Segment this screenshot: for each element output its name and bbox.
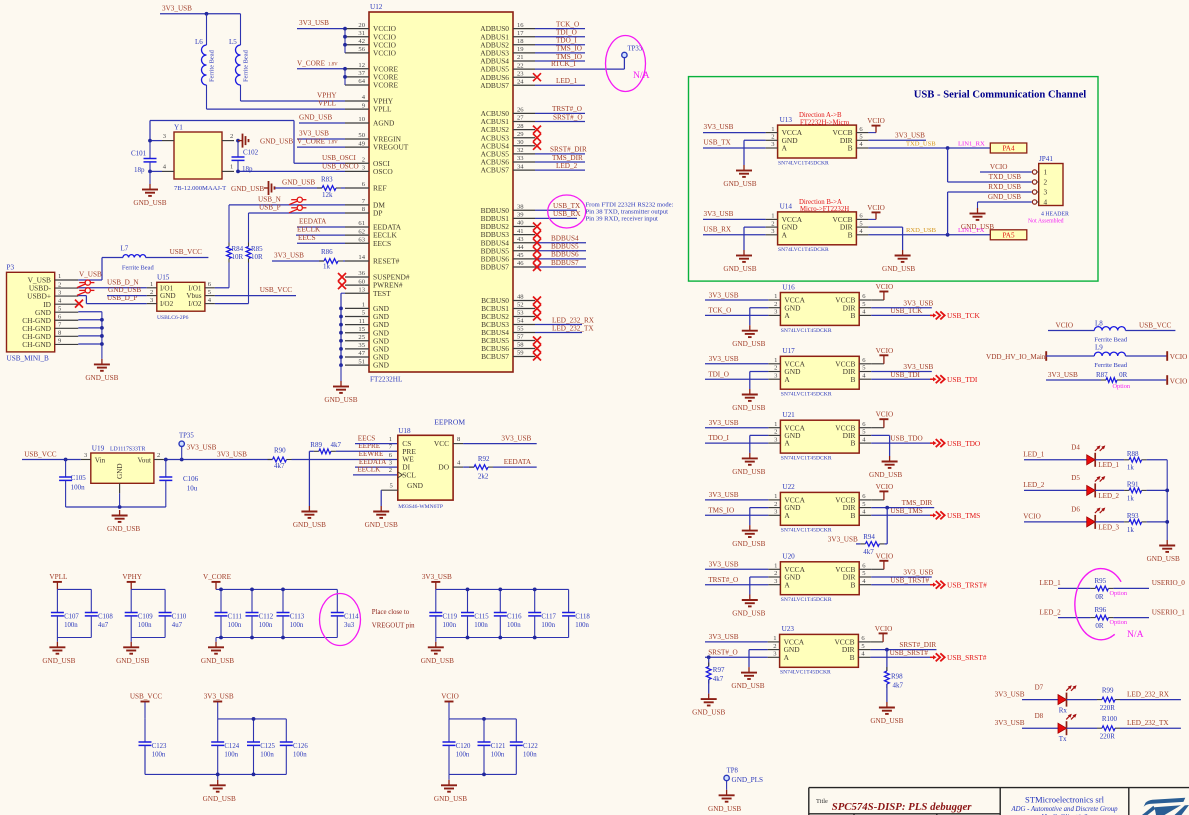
capacitor C105 100n xyxy=(59,460,86,508)
wire U13 GND pin2 xyxy=(744,140,766,165)
svg-text:USB_TX: USB_TX xyxy=(553,202,581,210)
svg-text:1.8V: 1.8V xyxy=(328,62,338,67)
svg-text:M93S46-WMN6TP: M93S46-WMN6TP xyxy=(398,504,443,510)
svg-text:ACBUS7: ACBUS7 xyxy=(481,166,510,175)
ground under U23 xyxy=(731,667,764,690)
svg-text:V_CORE: V_CORE xyxy=(297,59,326,67)
svg-text:GND_USB: GND_USB xyxy=(421,657,454,665)
svg-text:GND_USB: GND_USB xyxy=(882,265,915,273)
svg-text:LED_232_TX: LED_232_TX xyxy=(1127,719,1169,727)
svg-text:V_CORE: V_CORE xyxy=(297,138,326,146)
svg-text:Y1: Y1 xyxy=(174,123,183,131)
wire 3V3_USB to U13 pin1 xyxy=(703,123,766,132)
svg-text:TCK_O: TCK_O xyxy=(708,307,731,315)
svg-text:3V3_USB: 3V3_USB xyxy=(299,19,329,27)
capacitor bank VPHY C109 C110 xyxy=(116,573,187,665)
svg-text:D6: D6 xyxy=(1071,506,1080,514)
svg-text:R94: R94 xyxy=(863,533,875,541)
power VCIO at U16 xyxy=(871,283,893,300)
wire LED_232_TX from BCBUS4 xyxy=(535,324,594,332)
ground at U21 DIR xyxy=(869,456,902,479)
wire 3V3_USB to U21 pin1 xyxy=(705,419,768,428)
svg-text:A: A xyxy=(782,144,788,153)
label RXD_USB JP41 pin3 xyxy=(988,183,1021,191)
svg-text:EECS: EECS xyxy=(373,239,391,248)
svg-text:GND_USB: GND_USB xyxy=(692,709,725,717)
net tie on USBD- line xyxy=(77,278,147,287)
company text STMicroelectronics xyxy=(1010,794,1118,815)
svg-text:3u3: 3u3 xyxy=(344,622,355,629)
svg-text:USB_VCC: USB_VCC xyxy=(1139,322,1172,330)
svg-text:From FTDI 2232H RS232 mode:: From FTDI 2232H RS232 mode: xyxy=(586,201,674,208)
wire 3V3_USB from U13 DIR xyxy=(868,131,926,140)
svg-text:VCIO: VCIO xyxy=(990,163,1008,171)
wire U17 GND pin2 xyxy=(750,372,769,390)
svg-text:D8: D8 xyxy=(1035,712,1044,720)
svg-text:1: 1 xyxy=(774,293,777,300)
svg-text:SN74LVC1T45DCKR: SN74LVC1T45DCKR xyxy=(780,670,831,676)
svg-text:VCIO: VCIO xyxy=(875,625,893,633)
svg-text:100n: 100n xyxy=(523,752,537,759)
wire USB_P vertical to U15 xyxy=(248,213,250,304)
svg-text:C112: C112 xyxy=(259,614,274,621)
wire TMS_IO from ADBUS4 xyxy=(535,53,585,61)
svg-text:BDBUS7: BDBUS7 xyxy=(481,263,510,272)
svg-text:I/O2: I/O2 xyxy=(188,300,202,308)
svg-text:EEDATA: EEDATA xyxy=(299,218,327,226)
svg-text:TDO_I: TDO_I xyxy=(708,434,729,442)
svg-text:0R: 0R xyxy=(1119,371,1128,379)
svg-text:2: 2 xyxy=(773,643,776,650)
svg-text:Vin: Vin xyxy=(95,456,106,464)
ground under R89 xyxy=(293,506,326,529)
wire USB_TX to U13 pin3 xyxy=(703,139,766,148)
wire 3V3_USB from U18 VCC xyxy=(463,435,537,444)
svg-text:1: 1 xyxy=(771,126,774,133)
svg-text:100n: 100n xyxy=(138,622,152,629)
op-amp U20 translator xyxy=(768,553,871,604)
wire U14 GND pin2 xyxy=(744,227,766,250)
svg-text:4k7: 4k7 xyxy=(863,548,874,556)
svg-text:Option: Option xyxy=(1113,383,1131,390)
svg-text:TP35: TP35 xyxy=(179,433,194,440)
svg-text:USB_SRST#: USB_SRST# xyxy=(947,653,987,662)
svg-text:USB_TX: USB_TX xyxy=(704,139,732,147)
svg-text:SN74LVC1T45DCKR: SN74LVC1T45DCKR xyxy=(781,392,832,398)
svg-text:SN74LVC1T45DCKR: SN74LVC1T45DCKR xyxy=(781,597,832,603)
title text SPC574S-DISP xyxy=(816,798,972,813)
svg-text:C109: C109 xyxy=(138,614,153,621)
svg-text:C106: C106 xyxy=(183,475,199,483)
no-connect X ADBUS6 xyxy=(533,73,541,81)
svg-text:3V3_USB: 3V3_USB xyxy=(274,252,304,260)
wire LED_1 from ADBUS7 xyxy=(535,77,585,85)
net tie on USBD+ line xyxy=(77,288,147,304)
wire GND_USB to AGND xyxy=(299,114,345,123)
svg-text:12k: 12k xyxy=(322,191,333,199)
no-connect X PWREN# xyxy=(338,281,346,289)
svg-text:100n: 100n xyxy=(259,622,273,629)
svg-text:3V3_USB: 3V3_USB xyxy=(903,299,933,307)
op-amp U22 translator xyxy=(768,483,871,534)
svg-text:SN74LVC1T45DCKR: SN74LVC1T45DCKR xyxy=(781,528,832,534)
ellipse N/A around TP33 xyxy=(606,36,650,92)
wire EECLK to U18 SCL xyxy=(353,466,398,475)
svg-text:100n: 100n xyxy=(152,752,166,759)
svg-text:TP8: TP8 xyxy=(727,767,739,774)
svg-text:35: 35 xyxy=(358,342,365,349)
svg-text:3V3_USB: 3V3_USB xyxy=(709,633,739,641)
wire TMS_DIR from ACBUS6 xyxy=(535,154,585,162)
svg-text:28: 28 xyxy=(517,123,524,130)
svg-text:U17: U17 xyxy=(782,347,795,355)
port PA5 xyxy=(990,230,1027,240)
svg-text:VPLL: VPLL xyxy=(373,105,392,114)
inductor L9 Ferrite Bead xyxy=(986,344,1187,369)
svg-text:VDD_HV_IO_Main: VDD_HV_IO_Main xyxy=(986,353,1046,361)
svg-text:R91: R91 xyxy=(1127,480,1139,488)
svg-text:47: 47 xyxy=(358,350,365,357)
svg-text:3V3_USB: 3V3_USB xyxy=(709,419,739,427)
svg-text:A: A xyxy=(784,653,790,662)
wire 3V3_USB to U14 pin1 xyxy=(703,210,766,219)
svg-text:GND_PLS: GND_PLS xyxy=(732,776,764,784)
wire TXD_USB from U13 B xyxy=(868,140,990,150)
wire TMS_DIR from U22 DIR xyxy=(871,499,934,509)
net tie on USB_N / wire DM xyxy=(229,196,345,205)
svg-text:GND_USB: GND_USB xyxy=(107,525,140,533)
svg-text:0R: 0R xyxy=(1095,622,1104,630)
title block frame xyxy=(809,788,1189,815)
svg-text:100n: 100n xyxy=(228,622,242,629)
crystal Y1 7B-12.000MAAJ-T xyxy=(162,123,234,192)
svg-text:VCIO: VCIO xyxy=(876,552,894,560)
svg-text:SPC574S-DISP: PLS debugger: SPC574S-DISP: PLS debugger xyxy=(832,801,973,813)
svg-text:B: B xyxy=(848,230,853,239)
svg-text:21: 21 xyxy=(517,54,524,61)
svg-text:220R: 220R xyxy=(1100,704,1116,712)
ground under C101 xyxy=(133,171,166,207)
wire USB_OSCI xyxy=(150,121,357,164)
wire 3V3_USB from U16 DIR xyxy=(871,299,933,307)
svg-text:32: 32 xyxy=(517,147,524,154)
svg-text:GND_USB: GND_USB xyxy=(293,521,326,529)
wire U17 B output USB_TDI xyxy=(871,371,932,379)
svg-text:23: 23 xyxy=(517,70,524,77)
ground at U14 DIR xyxy=(882,250,915,273)
svg-text:GND_USB: GND_USB xyxy=(365,521,398,529)
svg-text:VCIO: VCIO xyxy=(1056,322,1074,330)
port USB_TDO xyxy=(930,439,981,448)
port USB_TMS xyxy=(930,511,980,520)
wire 3V3_USB to U23 pin1 xyxy=(705,633,768,642)
svg-text:100n: 100n xyxy=(71,484,86,492)
svg-text:3V3_USB: 3V3_USB xyxy=(995,690,1025,698)
resistor R94 4k7 pullup xyxy=(828,508,887,556)
svg-text:EECS: EECS xyxy=(358,434,376,442)
svg-text:4 HEADER: 4 HEADER xyxy=(1041,212,1069,218)
svg-text:RESET#: RESET# xyxy=(373,257,400,266)
svg-text:Option: Option xyxy=(1110,619,1128,626)
svg-text:2: 2 xyxy=(774,365,777,372)
svg-text:3V3_USB: 3V3_USB xyxy=(903,569,933,577)
LED D6 xyxy=(1023,506,1119,532)
svg-text:VREGOUT: VREGOUT xyxy=(373,143,409,152)
svg-text:C107: C107 xyxy=(64,614,79,621)
no-connect X BCBUS0 xyxy=(533,297,541,305)
wire U22 B output USB_TMS xyxy=(871,507,932,515)
svg-text:GND_USB: GND_USB xyxy=(231,185,264,193)
svg-text:P3: P3 xyxy=(7,264,15,272)
wire EEPRE to U18 xyxy=(336,442,398,451)
svg-text:LED_3: LED_3 xyxy=(1098,523,1119,531)
no-connect X BCBUS7 xyxy=(533,353,541,361)
svg-text:Vout: Vout xyxy=(138,456,151,464)
svg-text:TMS_IO: TMS_IO xyxy=(556,45,582,53)
wire LED_2 from ACBUS7 xyxy=(535,162,585,170)
svg-text:R98: R98 xyxy=(891,673,903,681)
svg-text:56: 56 xyxy=(358,46,365,53)
power VCIO at U13 xyxy=(867,117,885,133)
ST logo xyxy=(1142,798,1189,815)
wire SRST#_O to U23 pin3 xyxy=(705,648,768,657)
svg-text:Ferrite Bead: Ferrite Bead xyxy=(122,264,155,271)
svg-text:Ferrite Bead: Ferrite Bead xyxy=(209,49,216,82)
wire TMS_IO to U22 pin3 xyxy=(705,506,768,515)
ellipse N/A around R95 R96 xyxy=(1075,569,1144,640)
svg-text:A: A xyxy=(784,511,790,520)
svg-text:FT2232H->Micro: FT2232H->Micro xyxy=(800,119,850,126)
wire BDBUS5 no-connect xyxy=(533,243,586,255)
svg-text:Direction B->A: Direction B->A xyxy=(799,199,842,206)
port PA4 xyxy=(990,143,1027,153)
wire BDBUS7 no-connect xyxy=(533,259,586,271)
svg-text:GND_USB: GND_USB xyxy=(708,805,741,813)
svg-text:GND_USB: GND_USB xyxy=(108,286,141,294)
svg-text:B: B xyxy=(850,511,855,520)
svg-text:PA4: PA4 xyxy=(1002,145,1015,153)
svg-text:26: 26 xyxy=(517,107,524,114)
no-connect X ACBUS4 xyxy=(533,142,541,150)
svg-text:220R: 220R xyxy=(1100,733,1116,741)
svg-text:GND_USB: GND_USB xyxy=(732,340,765,348)
svg-text:D4: D4 xyxy=(1071,444,1080,452)
svg-text:1: 1 xyxy=(230,164,233,171)
wire crystal left xyxy=(148,121,162,174)
svg-text:LED_2: LED_2 xyxy=(1098,492,1119,500)
wire GND_USB to U15 pin2 xyxy=(107,286,147,295)
svg-text:GND_USB: GND_USB xyxy=(260,137,293,145)
svg-text:10R: 10R xyxy=(232,253,244,261)
svg-text:USB_VCC: USB_VCC xyxy=(24,451,57,459)
svg-text:U23: U23 xyxy=(782,625,795,633)
svg-text:USB_MINI_B: USB_MINI_B xyxy=(7,354,50,362)
svg-text:SCL: SCL xyxy=(402,471,416,480)
svg-text:1: 1 xyxy=(150,281,153,288)
svg-text:19: 19 xyxy=(517,46,524,53)
svg-text:3V3_USB: 3V3_USB xyxy=(422,573,452,581)
wire RTCK_I from ADBUS5 to TP33 xyxy=(535,58,624,70)
svg-text:LED_2: LED_2 xyxy=(556,162,578,170)
svg-text:GND_USB: GND_USB xyxy=(85,374,118,382)
svg-text:VPHY: VPHY xyxy=(317,92,337,100)
svg-text:USB_RX: USB_RX xyxy=(704,225,732,233)
svg-text:GND: GND xyxy=(373,361,390,370)
svg-text:4k7: 4k7 xyxy=(274,462,285,470)
svg-text:3V3_USB: 3V3_USB xyxy=(204,693,234,701)
resistor R90 4k7 xyxy=(268,446,292,470)
svg-text:GND: GND xyxy=(160,292,176,300)
svg-text:58: 58 xyxy=(517,342,524,349)
svg-text:100n: 100n xyxy=(541,622,555,629)
wire USB_N vertical to U15 xyxy=(228,205,230,288)
resistor R97 4k7 pulldown on SRST#_O xyxy=(706,655,725,693)
power VCIO at U22 xyxy=(871,483,893,500)
svg-text:OSCO: OSCO xyxy=(373,167,393,176)
svg-text:USB_VCC: USB_VCC xyxy=(130,693,163,701)
svg-text:D7: D7 xyxy=(1035,683,1044,691)
wire TDO_I to U21 pin3 xyxy=(705,434,768,443)
ground under U17 xyxy=(732,389,765,412)
svg-text:USB_OSCO: USB_OSCO xyxy=(322,163,359,171)
svg-text:15: 15 xyxy=(358,326,365,333)
svg-text:TDO_I: TDO_I xyxy=(556,37,577,45)
svg-text:3V3_USB: 3V3_USB xyxy=(704,123,734,131)
svg-text:R93: R93 xyxy=(1127,512,1139,520)
svg-text:12: 12 xyxy=(358,62,365,69)
svg-text:R90: R90 xyxy=(274,446,286,454)
svg-text:0R: 0R xyxy=(1095,593,1104,601)
wire EEDATA from R92 xyxy=(493,458,537,467)
svg-text:AGND: AGND xyxy=(373,119,395,128)
svg-text:100n: 100n xyxy=(64,622,78,629)
svg-text:100n: 100n xyxy=(491,752,505,759)
svg-text:4u7: 4u7 xyxy=(98,622,109,629)
wire 3V3_USB from U17 DIR xyxy=(871,363,933,371)
svg-text:61: 61 xyxy=(358,220,365,227)
svg-text:TMS_IO: TMS_IO xyxy=(708,506,734,514)
svg-text:PA5: PA5 xyxy=(1002,231,1015,239)
resistor R85 10R xyxy=(246,243,263,263)
LED D7 xyxy=(995,683,1077,714)
svg-text:ADG - Automotive and Discrete: ADG - Automotive and Discrete Group xyxy=(1010,806,1118,813)
wire SRST#_O from ACBUS1 xyxy=(535,113,585,121)
no-connect X SUSPEND# xyxy=(338,273,346,281)
svg-text:Ferrite Bead: Ferrite Bead xyxy=(1094,337,1127,344)
svg-text:55: 55 xyxy=(517,326,524,333)
svg-text:CH-GND: CH-GND xyxy=(22,340,51,349)
svg-text:N/A: N/A xyxy=(1127,629,1144,640)
svg-text:48: 48 xyxy=(517,294,524,301)
svg-text:4k7: 4k7 xyxy=(331,441,342,449)
svg-text:GND_USB: GND_USB xyxy=(133,199,166,207)
svg-text:EECLK: EECLK xyxy=(357,466,381,474)
svg-text:GND_USB: GND_USB xyxy=(1147,555,1180,563)
svg-text:4: 4 xyxy=(1044,199,1048,207)
svg-text:USERIO_1: USERIO_1 xyxy=(1152,608,1186,616)
svg-text:C122: C122 xyxy=(523,743,538,750)
wire RXD_USB to JP41 pin3 xyxy=(948,192,1032,235)
svg-text:C110: C110 xyxy=(172,614,187,621)
svg-text:C118: C118 xyxy=(575,614,590,621)
wire LED common cathode rail xyxy=(1165,460,1169,540)
svg-text:SRST#_O: SRST#_O xyxy=(553,113,583,121)
wire 3V3_USB to U22 pin1 xyxy=(705,491,768,500)
svg-text:TRST#_O: TRST#_O xyxy=(552,105,582,113)
svg-text:GND_USB: GND_USB xyxy=(732,540,765,548)
resistor R98 4k7 pulldown xyxy=(885,650,904,702)
wire EEDATA to U18 DI xyxy=(355,458,398,467)
svg-text:GND_USB: GND_USB xyxy=(732,610,765,618)
svg-text:2: 2 xyxy=(230,133,233,140)
svg-text:2: 2 xyxy=(771,220,774,227)
svg-text:EEPROM: EEPROM xyxy=(434,417,465,426)
svg-text:VCIO: VCIO xyxy=(1023,513,1041,521)
capacitor C102 18p xyxy=(232,139,259,174)
svg-text:U19: U19 xyxy=(92,444,105,452)
svg-text:EEDATA: EEDATA xyxy=(359,458,387,466)
svg-text:30: 30 xyxy=(517,139,524,146)
wire U16 GND pin2 xyxy=(750,308,769,326)
resistor R88 xyxy=(1095,450,1167,472)
svg-text:U18: U18 xyxy=(398,427,411,435)
svg-text:64: 64 xyxy=(358,78,365,85)
svg-text:16: 16 xyxy=(517,22,524,29)
no-connect X BDBUS3 xyxy=(533,231,541,239)
svg-text:20: 20 xyxy=(358,22,365,29)
svg-text:VCIO: VCIO xyxy=(867,117,885,125)
svg-text:49: 49 xyxy=(358,140,365,147)
svg-text:C119: C119 xyxy=(443,614,458,621)
svg-text:1: 1 xyxy=(389,436,392,443)
svg-text:LED_1: LED_1 xyxy=(556,77,578,85)
svg-text:31: 31 xyxy=(358,30,365,37)
wire U23 GND pin2 xyxy=(749,650,768,668)
svg-text:GND_USB: GND_USB xyxy=(869,471,902,479)
svg-text:U16: U16 xyxy=(782,283,795,291)
svg-text:1: 1 xyxy=(774,563,777,570)
port USB_TCK xyxy=(930,311,981,320)
wire U20 B output USB_TRST# xyxy=(871,576,932,584)
inductor L8 Ferrite Bead xyxy=(1048,319,1175,343)
svg-text:LED_232_TX: LED_232_TX xyxy=(552,324,594,332)
svg-text:2k2: 2k2 xyxy=(478,472,489,480)
svg-text:USB_TDO: USB_TDO xyxy=(890,435,922,443)
svg-text:4k7: 4k7 xyxy=(713,675,724,683)
svg-text:3V3_USB: 3V3_USB xyxy=(709,491,739,499)
svg-text:100n: 100n xyxy=(474,622,488,629)
svg-text:EECS: EECS xyxy=(298,234,316,242)
svg-text:DP: DP xyxy=(373,209,382,218)
svg-text:BDBUS5: BDBUS5 xyxy=(551,243,579,251)
no-connect X BDBUS2 xyxy=(533,223,541,231)
svg-text:18p: 18p xyxy=(134,166,145,174)
svg-text:25: 25 xyxy=(358,334,365,341)
ground under U13 xyxy=(723,165,756,188)
svg-text:JP41: JP41 xyxy=(1039,155,1053,163)
svg-text:100n: 100n xyxy=(456,752,470,759)
svg-text:GND_USB: GND_USB xyxy=(961,223,994,231)
wire U21 GND pin2 xyxy=(750,435,769,453)
wire USB_RX to U14 pin3 xyxy=(703,225,766,234)
connector JP41 4 HEADER xyxy=(1028,155,1069,225)
svg-text:V_USB: V_USB xyxy=(79,271,102,279)
svg-text:USB_TRST#: USB_TRST# xyxy=(947,581,987,590)
no-connect X P3 ID pin xyxy=(75,300,83,308)
svg-text:45: 45 xyxy=(517,252,524,259)
ground under U22 xyxy=(732,525,765,548)
wire VCIO to JP41 pin1 xyxy=(980,163,1032,172)
